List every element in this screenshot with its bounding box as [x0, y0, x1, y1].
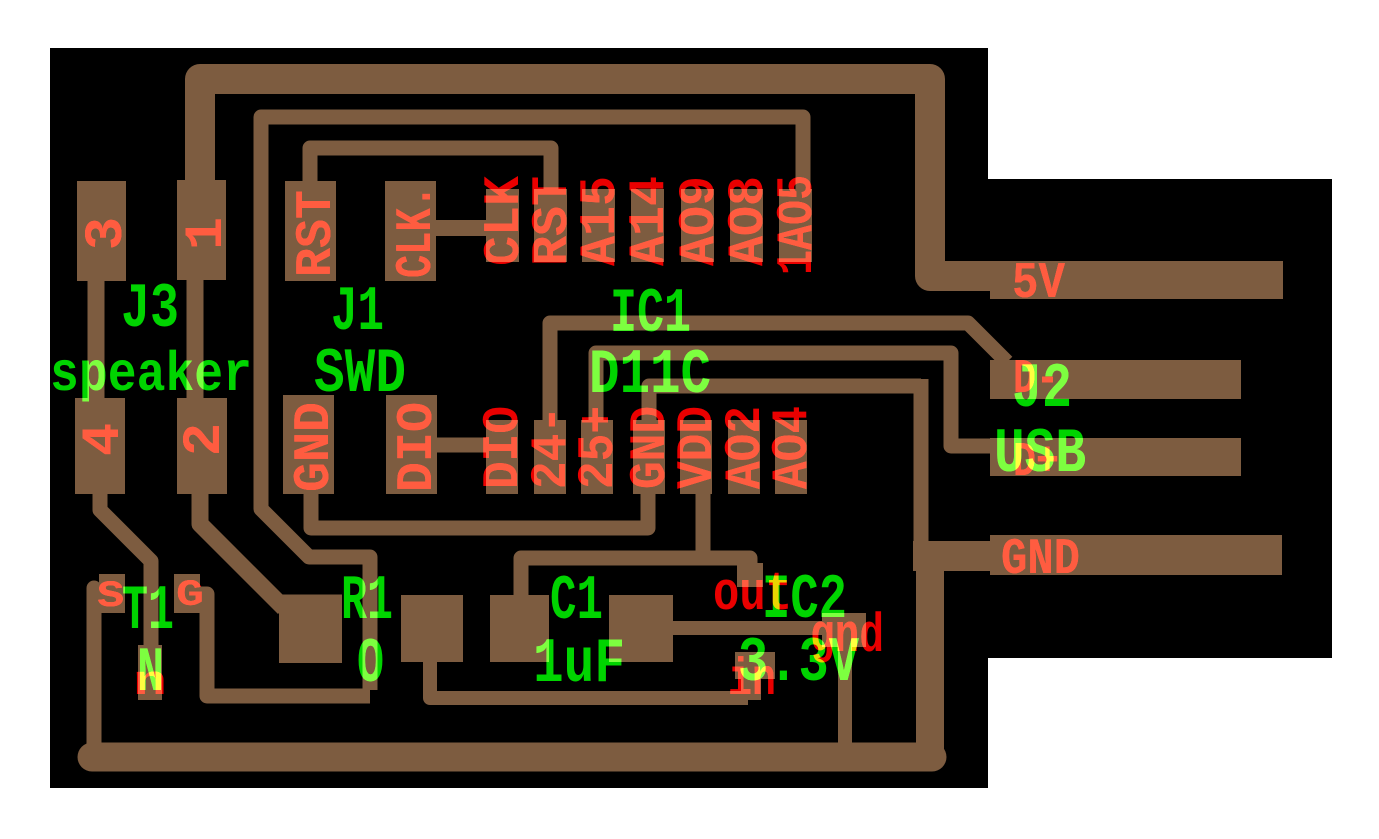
wire J3.2 diagonal to R1.1 [200, 494, 284, 608]
pad IC2.gnd [822, 613, 866, 647]
svg-text:CLK.: CLK. [389, 185, 446, 278]
wire VDD horizontal to C1.1 and IC2.out [521, 558, 750, 598]
pad 5V bar [990, 261, 1283, 299]
svg-text:2: 2 [175, 423, 236, 456]
pad J3.2 [177, 398, 227, 494]
pad IC1.A14 [631, 189, 664, 262]
svg-text:25+: 25+ [571, 406, 628, 489]
svg-text:1uF: 1uF [533, 629, 625, 700]
wire 25+ to USB bar [596, 353, 992, 446]
pad IC1.A08 [730, 189, 763, 262]
pad J1.DIO [386, 395, 437, 494]
wire 5V net: J3.1 to 5V bar [200, 79, 992, 276]
pad J3.3 [77, 181, 126, 281]
svg-text:J1: J1 [331, 277, 384, 348]
pad R1.1 [279, 603, 342, 663]
pad J2 bar [990, 360, 1241, 399]
pad IC1.1A05 [779, 189, 812, 262]
pad IC1.DIO [486, 420, 518, 494]
pad IC1.CLK [486, 189, 519, 262]
svg-text:1AO5: 1AO5 [770, 175, 827, 275]
pad IC1.A02 [728, 420, 760, 494]
svg-text:RST: RST [289, 190, 346, 277]
svg-text:GND: GND [287, 402, 344, 492]
svg-text:5V: 5V [1012, 256, 1065, 313]
wire RST net: J1.RST to IC1.RST [310, 148, 551, 195]
pad IC1.RST [534, 189, 567, 262]
pad C1.1 [490, 595, 549, 662]
wire R1.1 top stub [282, 595, 342, 608]
svg-text:speaker: speaker [50, 343, 252, 407]
wire T1.G to A-net junction [196, 594, 370, 696]
svg-text:4: 4 [74, 423, 135, 456]
pad C1.2 [609, 595, 673, 662]
svg-text:GND: GND [1001, 532, 1080, 589]
svg-text:J3: J3 [121, 274, 179, 345]
pad R1.2 [401, 595, 463, 662]
pad IC1.25+ [581, 420, 613, 494]
svg-text:A14: A14 [622, 176, 679, 266]
pad IC1.24- [534, 420, 566, 494]
wire GND bar stub [913, 541, 992, 571]
pad T1.G [174, 574, 200, 613]
pad IC1.GND [633, 420, 665, 494]
pad IC1.VDD [680, 420, 712, 494]
pad J1.RST [285, 181, 336, 281]
pad T1.s [99, 574, 125, 613]
wire J3.4 to T1.d [100, 494, 151, 662]
svg-text:SWD: SWD [314, 339, 406, 410]
svg-text:D11C: D11C [589, 340, 711, 411]
svg-text:C1: C1 [550, 566, 603, 637]
svg-text:T1: T1 [122, 576, 174, 647]
pad IC2.out [737, 563, 763, 587]
pad IC1.A04 [775, 420, 807, 494]
wire CLK stub J1.CLK to IC1.CLK [432, 220, 488, 236]
wire IC2.in leg [741, 662, 761, 700]
wire C1.2 to IC2.gnd [670, 621, 828, 635]
svg-text:R1: R1 [341, 566, 393, 637]
pad IC2.in [735, 652, 775, 679]
svg-text:USB: USB [994, 419, 1086, 490]
svg-text:3: 3 [77, 217, 138, 250]
pad GND bar [990, 535, 1282, 575]
pad USB bar [990, 438, 1241, 476]
wire VDD leg from IC1.VDD [696, 490, 711, 558]
wire GND upper vertical [914, 379, 929, 552]
svg-text:DIO: DIO [390, 402, 447, 492]
svg-text:G: G [176, 575, 204, 617]
pad J3.4 [75, 398, 125, 494]
svg-text:3.3V: 3.3V [738, 628, 859, 699]
pad J1.GND [283, 395, 334, 494]
wire 24- to J2 bar [550, 323, 1007, 425]
pad J3.1 [177, 180, 226, 280]
wire DIO stub J1.DIO to IC1.DIO [432, 438, 488, 453]
wire J1.GND to IC1.GND [311, 425, 648, 528]
pad T1.d [138, 645, 162, 700]
svg-text:J2: J2 [1012, 354, 1072, 425]
wire IC2.gnd leg [838, 645, 852, 752]
wire GND bottom run [92, 743, 932, 772]
wire J3.3 to J3.4 [88, 275, 105, 400]
svg-text:IC2: IC2 [762, 565, 847, 636]
svg-text:AO4: AO4 [765, 406, 822, 489]
pad IC1.A09 [681, 189, 714, 262]
pad IC1.A15 [582, 189, 615, 262]
svg-text:1: 1 [177, 217, 238, 250]
svg-text:O: O [357, 629, 384, 700]
wire GND lower vertical [916, 556, 944, 757]
wire in net: R1.2 to IC2.in [430, 660, 748, 698]
pad J1.CLK [385, 181, 436, 281]
svg-text:N: N [137, 638, 164, 709]
wire J3.1 to J3.2 [187, 275, 204, 400]
wire A-net: IC1.1A05 down to R1 area and T1.G [261, 117, 803, 690]
wire T1.s leg [87, 588, 102, 755]
wire GND feed from IC1.GND top to right side [649, 386, 921, 425]
